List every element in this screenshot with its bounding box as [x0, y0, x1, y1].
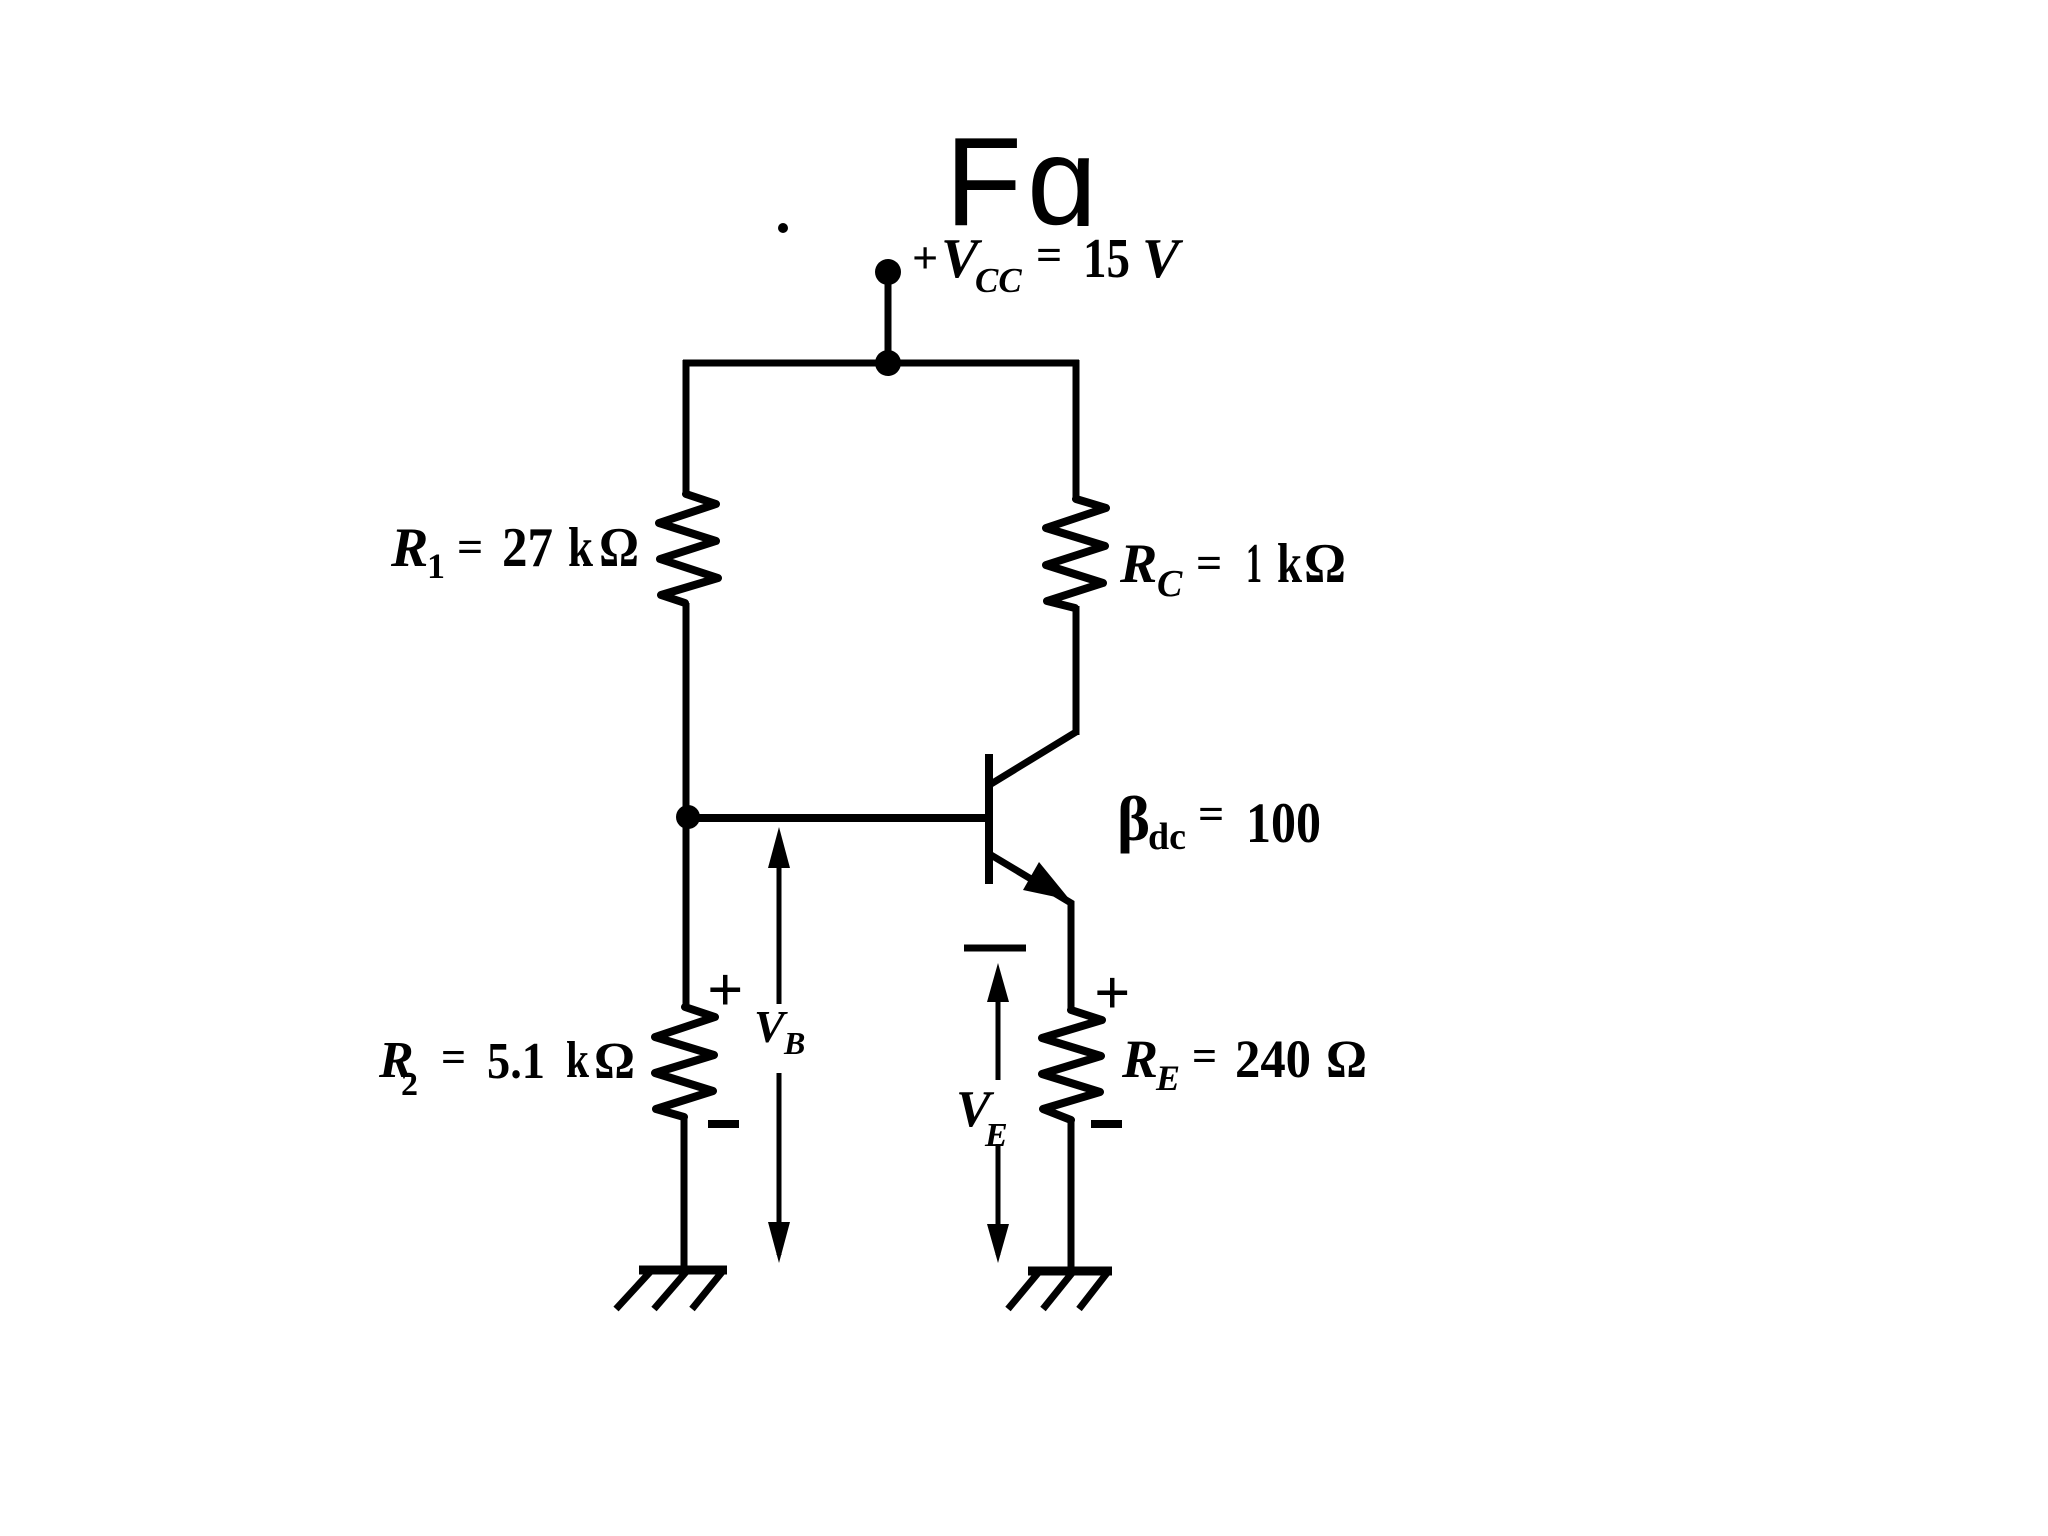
- resistor R2: [655, 1007, 715, 1117]
- label R1 = 27 kOhm: [390, 517, 639, 586]
- svg-text:dc: dc: [1148, 816, 1186, 858]
- svg-text:β: β: [1117, 784, 1150, 854]
- svg-text:15: 15: [1083, 228, 1130, 290]
- ground right bar: [1028, 1267, 1112, 1276]
- wire collector vertical: [1073, 608, 1080, 735]
- resistor R1: [659, 494, 718, 603]
- svg-text:=: =: [1198, 788, 1224, 839]
- svg-text:B: B: [783, 1025, 805, 1061]
- arrow VE upper segment: [987, 963, 1009, 1002]
- label +VCC = 15 V: [912, 228, 1184, 300]
- svg-text:Ω: Ω: [1326, 1029, 1367, 1089]
- svg-text:27: 27: [502, 517, 553, 579]
- wire VCC stem: [885, 272, 892, 363]
- wire left rail bottom: [681, 1117, 688, 1270]
- svg-text:2: 2: [401, 1066, 418, 1103]
- svg-text:=: =: [1036, 229, 1062, 280]
- svg-text:R: R: [1119, 533, 1157, 595]
- svg-text:=: =: [457, 521, 483, 572]
- svg-text:k: k: [1277, 533, 1303, 595]
- node base junction dot: [676, 805, 700, 829]
- wire top horizontal rail: [683, 360, 1079, 367]
- arrow VB upper segment: [768, 827, 790, 868]
- svg-text:+: +: [912, 232, 938, 283]
- svg-text:5.1: 5.1: [487, 1033, 545, 1090]
- svg-text:V: V: [1142, 228, 1184, 290]
- node VCC terminal dot: [875, 259, 901, 285]
- ground left hatch 2: [654, 1272, 686, 1309]
- label beta dc = 100: [1117, 784, 1321, 858]
- wire left rail middle: [683, 603, 690, 1008]
- transistor Q1 emitter lead: [991, 855, 1071, 1012]
- label R2 = 5.1 kOhm: [378, 1032, 635, 1103]
- svg-text:CC: CC: [975, 261, 1022, 300]
- wire base: [688, 814, 987, 822]
- label VE: [956, 1081, 1008, 1154]
- svg-text:C: C: [1157, 563, 1183, 605]
- label RE = 240 Ohm: [1121, 1029, 1367, 1098]
- ground left bar: [639, 1266, 727, 1275]
- node top junction dot: [875, 350, 901, 376]
- svg-text:1: 1: [1246, 533, 1262, 595]
- svg-text:E: E: [1155, 1058, 1180, 1098]
- svg-text:V: V: [754, 1001, 788, 1052]
- VE overbar: [964, 945, 1026, 952]
- resistor RC: [1046, 499, 1106, 608]
- wire left rail upper: [683, 360, 690, 496]
- svg-text:Ω: Ω: [599, 517, 639, 579]
- svg-text:R: R: [390, 517, 428, 579]
- minus sign at R2 bottom: [708, 1120, 739, 1128]
- resistor RE: [1042, 1010, 1102, 1120]
- wire emitter bottom: [1068, 1120, 1075, 1271]
- ground left hatch 3: [692, 1272, 722, 1309]
- wire right rail upper: [1073, 360, 1080, 501]
- ground right hatch 2: [1043, 1273, 1072, 1309]
- ground right hatch 1: [1008, 1273, 1038, 1309]
- svg-text:1: 1: [427, 546, 445, 586]
- svg-text:100: 100: [1246, 792, 1321, 855]
- transistor Q1 base bar: [985, 754, 993, 884]
- svg-text:=: =: [441, 1033, 466, 1082]
- ground left hatch 1: [616, 1272, 650, 1309]
- svg-text:R: R: [1121, 1029, 1158, 1089]
- label VB: [754, 1001, 805, 1061]
- svg-text:240: 240: [1235, 1029, 1311, 1089]
- svg-text:=: =: [1196, 537, 1222, 588]
- svg-text:k: k: [566, 1032, 589, 1089]
- svg-text:=: =: [1192, 1032, 1217, 1081]
- title Fg (clipped figure caption): [945, 111, 1102, 252]
- transistor Q1 emitter arrow: [1023, 862, 1070, 900]
- arrow VE lower segment: [996, 1144, 1001, 1255]
- transistor Q1 collector lead: [991, 606, 1076, 784]
- svg-text:Ω: Ω: [594, 1033, 635, 1090]
- stray ink dot: [778, 223, 788, 233]
- arrow VB lower segment: [777, 1073, 782, 1255]
- minus sign at RE bottom: [1091, 1120, 1122, 1128]
- svg-text:k: k: [568, 517, 594, 579]
- label RC = 1 kOhm: [1119, 533, 1346, 605]
- svg-text:Ω: Ω: [1304, 533, 1346, 595]
- ground right hatch 3: [1079, 1273, 1107, 1309]
